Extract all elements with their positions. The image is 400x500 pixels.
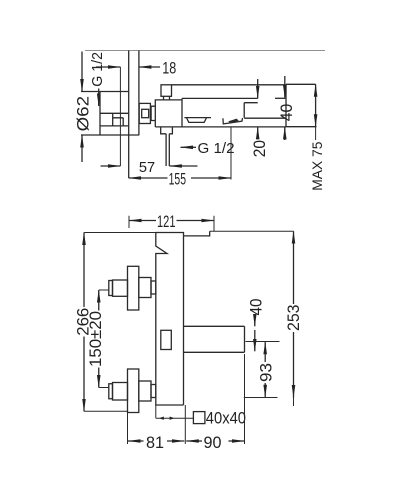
body bar inner step right <box>244 103 258 118</box>
cartridge detail lines <box>100 113 129 126</box>
G 1/2 lower leader arrow <box>181 146 197 148</box>
dim 57 right arrow <box>169 165 197 167</box>
dim 81 left arrowhead <box>128 440 144 442</box>
dim 40 lower arrow <box>284 127 286 140</box>
266 top ext <box>84 232 156 234</box>
G 1/2 top leader arrow <box>98 89 100 107</box>
body left block <box>155 100 182 127</box>
svg-text:MAX 75: MAX 75 <box>309 141 325 190</box>
wall line (top view) <box>85 50 325 52</box>
aerator window <box>187 118 207 123</box>
266 dim lower arrow <box>83 337 85 412</box>
ext x=127.5 bottom <box>127 413 129 445</box>
body left ext below <box>155 405 157 418</box>
121 ext left <box>128 216 130 228</box>
dim 57 left arrow <box>101 165 121 167</box>
lower union cap <box>109 384 113 399</box>
dim 20 lower arrow <box>257 127 259 139</box>
svg-text:40: 40 <box>247 299 266 316</box>
outlet detail <box>223 118 243 124</box>
40x40 right arrowhead <box>170 417 175 420</box>
dim 155 left arrowhead <box>129 177 168 179</box>
svg-text:18: 18 <box>162 59 176 78</box>
150+-20 ext upper <box>99 289 109 291</box>
top port neck <box>164 96 170 100</box>
svg-text:20: 20 <box>250 140 269 157</box>
150+-20 ext lower <box>99 387 109 389</box>
top step piece <box>184 231 210 236</box>
ext x=244.5 bottom <box>244 354 246 444</box>
body bar top edge <box>172 84 287 86</box>
dim 121 line left <box>129 220 156 222</box>
upper union cap <box>109 281 113 296</box>
upper union neck step <box>151 281 156 294</box>
253/93 bottom ext <box>244 397 278 399</box>
svg-text:90: 90 <box>204 433 222 452</box>
dia62 dim arrow lower <box>81 135 83 162</box>
step segment near tip <box>275 97 285 99</box>
body bar right edge <box>285 85 287 127</box>
40x40 leader line <box>156 417 194 419</box>
upper union neck <box>139 278 151 298</box>
spout top <box>184 325 245 327</box>
upper union nut <box>113 280 128 296</box>
150+-20 dim upper arrow <box>98 290 100 311</box>
body column outline <box>156 233 184 406</box>
121 ext right <box>213 216 215 231</box>
body bar lower inner line right <box>244 117 286 119</box>
ext x=185.3 bottom <box>184 405 186 444</box>
266 bottom ext <box>84 410 128 412</box>
svg-text:155: 155 <box>169 169 186 188</box>
svg-text:G 1/2: G 1/2 <box>198 140 235 157</box>
93 dim lower arrow <box>264 383 266 397</box>
valve block bottom ext line <box>81 134 139 136</box>
dim 155 right arrowhead <box>191 177 231 179</box>
93 dim upper arrow <box>264 342 266 362</box>
svg-text:93: 93 <box>256 363 275 382</box>
svg-text:81: 81 <box>146 433 164 452</box>
valve block top ext line <box>81 91 129 93</box>
connector inner square <box>142 109 149 117</box>
dim 90 right arrowhead <box>229 440 245 442</box>
max75 top ext <box>286 83 316 85</box>
plate front line x=138.9 <box>138 51 140 136</box>
body bar lower inner line left <box>184 117 211 119</box>
valve block left edge <box>99 92 101 136</box>
svg-text:40: 40 <box>277 104 296 122</box>
40 spout dim lower arrow <box>254 330 256 351</box>
outlet inner mark <box>230 119 238 122</box>
dim 90 left arrowhead <box>186 440 202 442</box>
plate back line x=128.7 <box>128 51 130 179</box>
dim 18 right arrow <box>139 66 160 68</box>
lower union nut <box>113 383 128 401</box>
body bar inner step line <box>182 97 258 99</box>
93 top ext <box>246 341 280 343</box>
253 top ext <box>210 230 294 232</box>
max75 dim line lower arrow <box>315 105 317 127</box>
max75 tail <box>315 127 317 140</box>
top port square <box>161 85 172 97</box>
lower union neck <box>139 381 151 401</box>
dim 81 right arrowhead <box>167 440 184 442</box>
hose tube <box>166 134 169 166</box>
svg-text:Ø62: Ø62 <box>74 96 93 131</box>
spout bottom <box>184 351 245 353</box>
lower union neck step <box>151 385 156 398</box>
spout right edge <box>244 326 246 352</box>
dim 20 upper arrow <box>257 79 259 98</box>
svg-text:253: 253 <box>284 305 303 332</box>
window rect <box>161 330 172 349</box>
max75 dim line upper arrow <box>315 84 317 105</box>
40x40 square glyph <box>193 412 205 424</box>
ext line spout axis <box>230 127 232 180</box>
253 dim lower arrow <box>293 332 295 398</box>
connector nut <box>139 103 150 123</box>
connector step <box>150 106 155 120</box>
svg-text:G 1/2: G 1/2 <box>89 52 106 87</box>
40x40 left arrowhead <box>159 417 164 420</box>
svg-text:150±20: 150±20 <box>86 311 105 367</box>
dim 121 line right <box>177 220 215 222</box>
upper union flange <box>128 266 139 310</box>
svg-text:121: 121 <box>157 212 176 231</box>
lower union flange <box>128 369 139 413</box>
body left block right edge <box>181 98 183 127</box>
dim 40 upper arrow <box>284 76 286 98</box>
150+-20 dim lower arrow <box>98 368 100 388</box>
dia62 dim arrow upper <box>81 52 83 92</box>
svg-text:40x40: 40x40 <box>206 409 246 428</box>
svg-text:57: 57 <box>139 159 155 176</box>
body right edge <box>183 236 185 405</box>
dim 18 left arrow <box>96 66 120 68</box>
40 spout dim upper arrow <box>254 316 256 326</box>
253 dim upper arrow <box>293 231 295 304</box>
max75 bottom ext <box>286 126 317 128</box>
hand shower stub <box>161 127 173 134</box>
266 dim upper arrow <box>83 233 85 308</box>
body bar bottom edge <box>155 126 286 128</box>
extension line x=120.4 <box>119 67 121 166</box>
253 tail below <box>293 398 295 407</box>
